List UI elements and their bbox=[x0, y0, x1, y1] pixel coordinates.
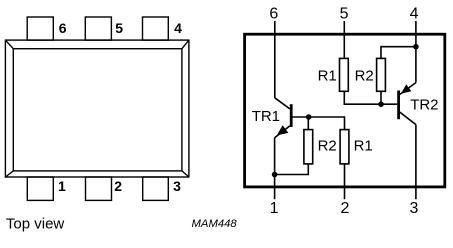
svg-text:R2: R2 bbox=[355, 67, 374, 84]
svg-text:4: 4 bbox=[410, 6, 419, 23]
svg-text:6: 6 bbox=[59, 20, 67, 36]
svg-text:6: 6 bbox=[269, 6, 278, 23]
svg-text:R1: R1 bbox=[318, 67, 337, 84]
svg-text:1: 1 bbox=[270, 200, 279, 217]
svg-text:MAM448: MAM448 bbox=[192, 218, 238, 230]
svg-text:1: 1 bbox=[58, 178, 66, 194]
svg-text:TR1: TR1 bbox=[252, 108, 280, 125]
svg-text:3: 3 bbox=[410, 200, 419, 217]
svg-text:R1: R1 bbox=[354, 137, 373, 154]
svg-text:Top view: Top view bbox=[6, 216, 65, 233]
svg-text:TR2: TR2 bbox=[410, 97, 438, 114]
svg-text:3: 3 bbox=[173, 178, 181, 194]
svg-text:2: 2 bbox=[341, 200, 350, 217]
svg-text:2: 2 bbox=[114, 178, 122, 194]
svg-text:5: 5 bbox=[115, 20, 123, 36]
svg-text:R2: R2 bbox=[318, 137, 337, 154]
svg-text:4: 4 bbox=[174, 20, 182, 36]
svg-text:5: 5 bbox=[340, 6, 349, 23]
